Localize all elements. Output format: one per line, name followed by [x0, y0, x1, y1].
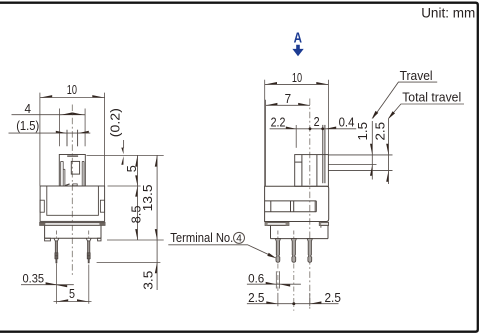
front view: stem outer lines (4mm) — [59, 109, 61, 147]
dim 0.6 (side view): extension line pair — [275, 271, 277, 288]
dim 0.4: leader arrow — [325, 127, 336, 129]
side view: slot divider 3 — [293, 201, 295, 212]
front view: metal base band — [40, 222, 105, 225]
svg-text:Travel: Travel — [400, 69, 433, 83]
side view: main body outline — [265, 186, 329, 221]
dim node dots — [309, 127, 312, 130]
side view: left foot plate end caps — [265, 222, 267, 225]
dim 7 (side view): extension stub — [265, 100, 267, 186]
svg-text:10: 10 — [292, 70, 302, 85]
svg-text:Total travel: Total travel — [402, 90, 461, 104]
side view: slot divider 1 — [270, 201, 272, 212]
dim 2.5 total travel (side view): dimension line — [388, 119, 390, 184]
dim 2.2 / 2 / 0.4 (side view): dimension line — [270, 128, 357, 130]
svg-text:7: 7 — [285, 91, 292, 106]
front view: base band end caps — [40, 222, 46, 225]
side view: lower block bottom line — [271, 238, 329, 240]
front view: terminal pin 1 crimp — [55, 253, 58, 259]
front view: terminal pin 2 crimp — [87, 253, 90, 259]
side view: terminal pin 3 — [307, 239, 312, 263]
svg-text:2.5: 2.5 — [248, 291, 264, 305]
side view: housing inner step tick — [295, 161, 302, 163]
side view: housing inner vertical 2 — [316, 155, 318, 187]
dim 10 (side view): extension lines — [264, 80, 266, 186]
svg-text:(0.2): (0.2) — [108, 108, 123, 137]
side view: housing inner vertical 1 — [301, 155, 303, 187]
side view: right foot plate — [319, 222, 328, 225]
front view: lower block sides — [44, 225, 46, 238]
front view: housing inner window — [71, 161, 79, 174]
svg-text:2.5: 2.5 — [372, 122, 387, 141]
front view: main body outline — [40, 186, 105, 221]
side view: slot lower line — [265, 211, 317, 213]
svg-text:(1.5): (1.5) — [16, 118, 39, 133]
dim 0.6 (side view): dimension line — [247, 283, 301, 285]
svg-text:4: 4 — [25, 101, 32, 116]
side view: left foot plate — [265, 222, 289, 225]
side view: right foot plate end cap and step — [319, 222, 321, 225]
side view: lever arm bottom edge — [328, 170, 392, 172]
side view: terminal pin 1 — [275, 239, 280, 263]
side view: slot end wall (double) — [315, 201, 317, 212]
side view: lower block sides — [270, 226, 272, 239]
svg-text:0.6: 0.6 — [248, 271, 265, 285]
svg-text:Terminal No.: Terminal No. — [170, 230, 233, 245]
dim 2.5+2.5 (side view): dimension line — [247, 303, 339, 305]
front view: terminal 2 root flare — [86, 238, 91, 241]
front view: left side tab — [40, 200, 44, 212]
dim 10 (side view): dimension line — [265, 83, 329, 85]
front view: upper housing outline — [59, 155, 85, 187]
svg-text:0.4: 0.4 — [339, 115, 355, 130]
front view: left corner foot — [45, 238, 51, 241]
front view: right side tab — [100, 200, 104, 212]
svg-text:4: 4 — [236, 234, 242, 245]
front view: housing top notch (0.2 step) — [67, 155, 78, 157]
dim 5 terminal spacing (front view): dimension line — [54, 301, 92, 303]
front view: body inner cover lines — [47, 186, 99, 215]
dim 4 (front view): dimension line — [12, 114, 86, 116]
seating-plane extension line (front view) — [107, 239, 164, 241]
side view: terminal pin 2 — [291, 239, 296, 263]
dim (0.2): leader and opposed arrows — [123, 140, 125, 148]
dim 2.2: arrow and extension line — [286, 127, 296, 129]
side view: upper housing outline — [295, 155, 329, 187]
svg-text:0.35: 0.35 — [23, 272, 45, 286]
housing-top extension line (front view) — [87, 154, 164, 156]
front view: housing inner right channel — [81, 161, 83, 186]
svg-text:2.5: 2.5 — [325, 291, 341, 305]
side view: terminal center dashes in block — [277, 231, 279, 239]
front view: stem inner lines (1.5mm) — [66, 130, 68, 147]
svg-text:2.2: 2.2 — [271, 115, 286, 130]
front view: housing inner left channel — [60, 161, 62, 186]
side view: center line (dash-dot) — [309, 99, 311, 311]
dim (1.5) (front view): dimension line — [9, 132, 91, 134]
dim 0.35 (front view): dimension line with crossing arrows — [21, 284, 74, 286]
dim 10 (front view): dimension line — [40, 97, 105, 99]
dim 5 / 8.5 (front view): dimension line — [137, 155, 139, 240]
svg-text:5: 5 — [69, 286, 75, 301]
dim 2.5+2.5 terminal spacing (side view): extension lines — [277, 293, 279, 306]
front view: terminal pin 1 — [55, 241, 57, 263]
side view: slot upper line — [265, 200, 317, 202]
side view: lever arm top edge — [328, 164, 376, 166]
svg-text:10: 10 — [67, 82, 77, 97]
front view: center line (dash-dot) — [71, 105, 73, 278]
front view: terminal center dashes in block — [55, 231, 57, 238]
svg-text:5: 5 — [124, 165, 139, 172]
front view: terminal 1 root flare — [54, 238, 59, 241]
front view: right corner foot — [98, 238, 101, 241]
side view: lever top extension line — [328, 154, 392, 156]
pin-end extension line (front view) — [97, 261, 161, 263]
front view: terminal pin 2 — [88, 241, 90, 263]
front view: lower block bottom line — [45, 237, 101, 239]
svg-text:2: 2 — [314, 114, 320, 129]
dim 7 (side view): dimension line — [266, 104, 310, 106]
front view: housing bottom detail marks — [65, 184, 70, 186]
side view: terminal center dashes below pins — [277, 264, 279, 292]
svg-text:1.5: 1.5 — [355, 122, 370, 141]
svg-text:Unit: mm: Unit: mm — [421, 6, 475, 21]
dim 1.5 travel (side view): dimension line — [371, 121, 373, 180]
svg-text:A: A — [294, 30, 303, 46]
svg-text:3.5: 3.5 — [140, 271, 155, 290]
side view: lever plate lines (0.4mm pair) — [322, 125, 324, 183]
side view: slot divider 2 — [290, 201, 292, 212]
svg-text:13.5: 13.5 — [140, 184, 155, 211]
pin extension lines (front view) — [55, 264, 57, 304]
dim 10 (front view): extension lines — [39, 93, 41, 186]
dim 13.5 / 3.5 (front view): dimension line — [156, 155, 158, 290]
body-top extension line (front view) — [108, 185, 141, 187]
